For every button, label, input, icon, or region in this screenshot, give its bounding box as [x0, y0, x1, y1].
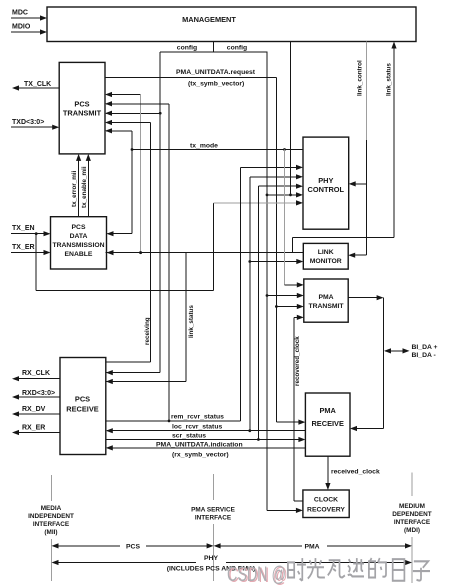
- wire PHY CONTROL input 4 from config and MANAGEMENT drop: [267, 42, 303, 198]
- block PHY CONTROL: [303, 137, 349, 229]
- svg-text:loc_rcvr_status: loc_rcvr_status: [172, 424, 222, 431]
- watermark CSDN: [227, 563, 288, 587]
- svg-text:LINK: LINK: [318, 249, 334, 256]
- svg-text:TRANSMIT: TRANSMIT: [63, 109, 102, 118]
- svg-text:RX_DV: RX_DV: [22, 406, 46, 413]
- svg-text:tx_error_mii: tx_error_mii: [71, 170, 78, 207]
- svg-text:tx_mode: tx_mode: [190, 143, 218, 150]
- svg-text:RECEIVE: RECEIVE: [311, 419, 344, 428]
- svg-text:TXD<3:0>: TXD<3:0>: [12, 119, 44, 126]
- wire PMA_UNITDATA.indication (rx_symb_vector) from PMA RECEIVE into PCS RECEIVE: [106, 441, 306, 458]
- wire rem_rcvr_status from PCS RECEIVE: [106, 414, 241, 421]
- wire transmitting from TX_EN junction to PHY CONTROL: [36, 200, 303, 290]
- wire rem_rcvr_status to PHY CONTROL input 1: [241, 165, 304, 421]
- svg-text:PHY: PHY: [204, 555, 218, 562]
- bracket PMA span: [214, 543, 412, 550]
- svg-text:PHY: PHY: [318, 176, 333, 185]
- svg-text:PMA: PMA: [304, 544, 319, 551]
- svg-text:TRANSMIT: TRANSMIT: [308, 303, 344, 310]
- wire PMA TRANSMIT output to MDI and PMA RECEIVE: [348, 295, 383, 431]
- svg-text:MDIO: MDIO: [12, 24, 31, 31]
- svg-text:PMA SERVICE: PMA SERVICE: [191, 507, 235, 514]
- svg-text:CSDN @: CSDN @: [227, 563, 286, 586]
- svg-text:PMA: PMA: [318, 294, 333, 301]
- svg-text:RECOVERY: RECOVERY: [307, 507, 345, 514]
- block PCS TRANSMIT: [59, 62, 105, 153]
- svg-text:PMA_UNITDATA.request: PMA_UNITDATA.request: [176, 69, 256, 76]
- bracket PHY span: [52, 555, 413, 573]
- svg-text:config: config: [177, 45, 197, 52]
- label MEDIUM DEPENDENT INTERFACE (MDI): [392, 503, 432, 534]
- wire config right branch to PHY CONTROL, PMA TRANSMIT, CLOCK RECOVERY: [266, 52, 304, 513]
- svg-text:TX_CLK: TX_CLK: [24, 81, 51, 88]
- block CLOCK RECOVERY: [303, 490, 349, 518]
- svg-text:link_status: link_status: [386, 63, 393, 96]
- svg-text:TRANSMISSION: TRANSMISSION: [52, 242, 104, 249]
- signal tx_error_mii from PCS DTE up to PCS TRANSMIT: [71, 154, 81, 217]
- signal TXD&lt;3:0&gt; into PCS TRANSMIT: [11, 119, 59, 130]
- wire config left branch to PCS TRANSMIT and PCS RECEIVE: [105, 52, 162, 375]
- char zi: [413, 561, 430, 580]
- wire config drop from MANAGEMENT and split: [160, 42, 267, 52]
- svg-text:receiving: receiving: [144, 317, 151, 345]
- svg-text:PCS: PCS: [75, 395, 90, 404]
- wire scr_status to PHY CONTROL input 3: [257, 184, 303, 441]
- signal RX_ER out of PCS RECEIVE: [12, 425, 60, 436]
- svg-text:(MII): (MII): [44, 529, 57, 536]
- char fei: [328, 560, 345, 577]
- svg-text:link_status: link_status: [188, 305, 195, 338]
- svg-text:rem_rcvr_status: rem_rcvr_status: [171, 414, 224, 421]
- block PCS RECEIVE: [60, 358, 106, 455]
- svg-text:BI_DA -: BI_DA -: [412, 352, 436, 359]
- char shi4: [348, 558, 364, 576]
- svg-text:recovered_clock: recovered_clock: [294, 336, 301, 386]
- svg-text:tx_enable_mii: tx_enable_mii: [81, 166, 88, 208]
- wire loc_rcvr_status to PHY CONTROL input 2 and LINK MONITOR: [248, 174, 303, 432]
- label MEDIA INDEPENDENT INTERFACE (MII): [28, 505, 74, 536]
- svg-text:PCS: PCS: [126, 544, 140, 551]
- signal RX_CLK out of PCS RECEIVE: [12, 370, 60, 381]
- wire link_status distribution line to PCS DTE, PCS RECEIVE, MANAGEMENT: [106, 42, 397, 385]
- svg-text:INDEPENDENT: INDEPENDENT: [28, 513, 74, 520]
- signal RXD&lt;3:0&gt; out of PCS RECEIVE: [12, 390, 60, 400]
- svg-text:RECEIVE: RECEIVE: [66, 405, 99, 414]
- signal RX_DV out of PCS RECEIVE: [12, 406, 60, 417]
- svg-text:PCS: PCS: [74, 100, 89, 109]
- wire scr_status from PCS RECEIVE to PMA RECEIVE: [106, 433, 306, 442]
- svg-text:(rx_symb_vector): (rx_symb_vector): [172, 452, 229, 459]
- svg-text:MONITOR: MONITOR: [310, 258, 342, 265]
- svg-text:config: config: [227, 45, 247, 52]
- svg-text:TX_EN: TX_EN: [12, 225, 35, 232]
- wire rem_rcvr_status branch into PCS TRANSMIT (second right input): [105, 101, 170, 422]
- signal tx_enable_mii from PCS DTE up to PCS TRANSMIT: [81, 154, 91, 217]
- svg-text:MANAGEMENT: MANAGEMENT: [182, 15, 236, 24]
- signal MDC into MANAGEMENT: [11, 10, 47, 21]
- svg-text:PMA: PMA: [319, 406, 336, 415]
- char ri: [393, 559, 405, 581]
- svg-text:scr_status: scr_status: [172, 433, 206, 440]
- watermark chinese glyphs: [288, 558, 430, 581]
- wire link_status gray branch into PCS TRANSMIT (top right input): [105, 92, 142, 254]
- char de: [369, 558, 386, 577]
- signal MDIO into MANAGEMENT: [11, 24, 47, 35]
- svg-text:MEDIA: MEDIA: [41, 505, 62, 512]
- svg-text:CLOCK: CLOCK: [314, 497, 338, 504]
- svg-text:RXD<3:0>: RXD<3:0>: [22, 390, 55, 397]
- block MANAGEMENT: [47, 7, 416, 42]
- svg-text:received_clock: received_clock: [331, 469, 380, 476]
- block PCS DATA TRANSMISSION ENABLE: [51, 217, 107, 269]
- svg-text:RX_ER: RX_ER: [22, 425, 45, 432]
- signal TX_ER into PCS DTE: [11, 244, 51, 255]
- separator PMA service interface line: [213, 474, 215, 581]
- bracket PCS span: [52, 543, 214, 550]
- svg-text:INTERFACE: INTERFACE: [33, 521, 70, 528]
- char guang: [307, 558, 325, 579]
- wire link_control from MANAGEMENT to PHY CONTROL and LINK MONITOR: [348, 42, 366, 258]
- block PMA TRANSMIT: [304, 279, 348, 322]
- svg-text:link_control: link_control: [357, 60, 364, 96]
- wire gray tx_mode branch to PHY CONTROL input5-area and PMA TRANSMIT input 1: [283, 148, 304, 287]
- wire receiving from PCS RECEIVE to PCS TRANSMIT (fourth right input): [105, 120, 151, 362]
- wire received_clock from PMA RECEIVE down to CLOCK RECOVERY: [325, 456, 380, 490]
- signal TX_CLK out of PCS TRANSMIT: [12, 81, 59, 91]
- svg-text:BI_DA +: BI_DA +: [412, 344, 438, 351]
- svg-text:INTERFACE: INTERFACE: [394, 519, 431, 526]
- svg-text:MDC: MDC: [12, 10, 28, 17]
- signal TX_EN into PCS DTE: [11, 225, 51, 236]
- svg-text:(MDI): (MDI): [404, 527, 420, 534]
- svg-text:ENABLE: ENABLE: [65, 251, 93, 258]
- block LINK MONITOR: [303, 243, 348, 269]
- svg-text:CONTROL: CONTROL: [308, 185, 345, 194]
- svg-text:MEDIUM: MEDIUM: [399, 503, 425, 510]
- svg-text:(tx_symb_vector): (tx_symb_vector): [188, 81, 244, 88]
- svg-text:RX_CLK: RX_CLK: [22, 370, 50, 377]
- svg-text:DATA: DATA: [70, 233, 88, 240]
- wire recovered_clock from CLOCK RECOVERY to PMA TRANSMIT: [294, 315, 304, 501]
- svg-text:TX_ER: TX_ER: [12, 244, 35, 251]
- label PMA SERVICE INTERFACE: [191, 507, 235, 522]
- svg-text:DEPENDENT: DEPENDENT: [392, 511, 432, 518]
- svg-text:PMA_UNITDATA.indication: PMA_UNITDATA.indication: [156, 441, 243, 448]
- block PMA RECEIVE: [305, 393, 350, 456]
- wire loc_rcvr_status from PMA RECEIVE into PCS RECEIVE: [106, 424, 306, 434]
- separator MII line: [51, 475, 53, 581]
- separator MDI line: [411, 473, 413, 584]
- wire PMA_UNITDATA.request (tx_symb_vector) from PCS TRANSMIT to PMA TRANSMIT and PMA RECEIVE: [105, 69, 305, 425]
- wire tx_mode from PHY CONTROL to PCS TRANSMIT and PCS DATA TRANSMISSION ENABLE: [105, 128, 303, 236]
- svg-text:PCS: PCS: [72, 224, 86, 231]
- char shi: [288, 558, 306, 581]
- signal BI_DA+/- bidirectional: [384, 344, 438, 359]
- svg-text:INTERFACE: INTERFACE: [195, 515, 232, 522]
